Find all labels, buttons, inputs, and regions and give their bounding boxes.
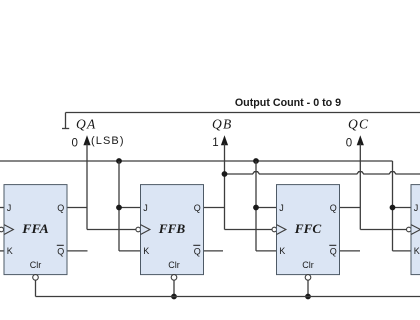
wire: FFA K input stub	[0, 250, 4, 252]
wire: FFB J/K tie	[119, 161, 141, 251]
wire: J-K logic bus (line A)	[0, 160, 393, 162]
svg-text:QA: QA	[76, 116, 96, 131]
FFA clock bubble	[0, 227, 4, 232]
FFC clock bubble	[272, 227, 277, 232]
svg-text:J: J	[7, 203, 12, 213]
svg-text:Q: Q	[194, 246, 201, 256]
junction dot bus-FFC tie	[253, 158, 259, 164]
flip-flop FFB	[141, 185, 204, 275]
wire: QB feedback to reset gate (line B with hops)	[225, 172, 420, 174]
wire: common clear line	[36, 296, 420, 298]
FFC Clr bubble	[305, 275, 311, 281]
wire: FFB Clr drop	[173, 280, 175, 296]
svg-text:(LSB): (LSB)	[91, 135, 125, 147]
FFD clock bubble	[407, 227, 412, 232]
svg-text:Clr: Clr	[30, 260, 42, 270]
bracket: output count brace	[62, 113, 420, 129]
svg-text:Q: Q	[330, 246, 337, 256]
wire: FFA J input stub	[0, 207, 4, 209]
svg-text:Output Count - 0 to 9: Output Count - 0 to 9	[235, 97, 341, 109]
svg-text:Q: Q	[57, 203, 64, 213]
junction dot QB-lineB	[222, 171, 228, 177]
junction dot FFB Clr	[171, 294, 177, 300]
wire: FFC Clr drop	[307, 280, 309, 296]
svg-text:1: 1	[212, 137, 218, 149]
svg-text:K: K	[279, 246, 285, 256]
svg-text:Q: Q	[194, 203, 201, 213]
wire: QA net (FFA Q to FFB clock)	[67, 208, 136, 230]
svg-text:0: 0	[346, 138, 352, 150]
svg-text:J: J	[279, 203, 284, 213]
flip-flop FFA	[4, 185, 67, 275]
svg-text:Clr: Clr	[168, 260, 180, 270]
wire: QB net (FFB Q to FFC clock)	[204, 208, 273, 230]
QB output arrow	[221, 135, 228, 229]
wire: FFA Clr drop	[35, 280, 37, 296]
svg-text:Clr: Clr	[302, 260, 314, 270]
wire: FFC Q-bar stub	[340, 250, 361, 252]
QC output arrow	[357, 135, 364, 229]
FFB Clr bubble	[171, 275, 177, 281]
flip-flop FFD (partially cropped)	[411, 185, 420, 275]
junction dot FFC Clr	[305, 294, 311, 300]
svg-text:FFB: FFB	[158, 222, 186, 236]
junction dot FFD J	[390, 205, 396, 211]
junction dot FFC J	[253, 205, 259, 211]
svg-text:QB: QB	[212, 116, 232, 131]
svg-text:K: K	[7, 246, 13, 256]
svg-text:QC: QC	[348, 116, 369, 131]
wire: QC net (FFC Q to FFD clock)	[340, 208, 407, 230]
FFA Clr bubble	[33, 275, 39, 281]
svg-text:Q: Q	[57, 246, 64, 256]
wire: FFA Q-bar stub	[67, 250, 88, 252]
junction dot bus-FFB tie	[116, 158, 122, 164]
junction dot FFB J	[116, 205, 122, 211]
wire: FFB Q-bar stub	[204, 250, 224, 252]
svg-text:K: K	[143, 246, 149, 256]
wire: FFD J/K tie	[393, 161, 412, 251]
svg-text:Q: Q	[330, 203, 337, 213]
QA output arrow	[83, 135, 90, 229]
svg-text:J: J	[143, 203, 148, 213]
svg-text:FFC: FFC	[294, 222, 322, 236]
svg-text:K: K	[414, 246, 420, 256]
FFB clock bubble	[136, 227, 141, 232]
svg-text:FFA: FFA	[21, 222, 49, 236]
wire: FFC J/K tie	[256, 161, 277, 251]
svg-text:0: 0	[71, 137, 77, 149]
flip-flop FFC	[277, 185, 340, 275]
svg-text:J: J	[414, 203, 419, 213]
